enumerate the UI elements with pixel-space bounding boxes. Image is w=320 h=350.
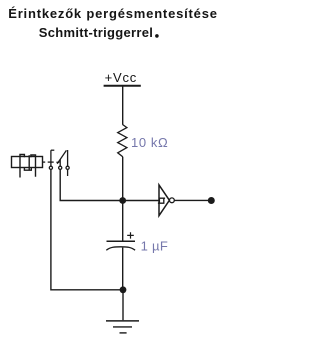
ground bar 1: [106, 320, 139, 322]
title line 1: [0, 6, 232, 21]
output terminal dot: [208, 197, 215, 204]
title line 2: [0, 25, 192, 40]
mechanical link dash 2: [56, 161, 59, 163]
switch S1 body box: [12, 157, 43, 168]
ground bar 2: [113, 326, 132, 328]
wire resistor to node A: [122, 157, 124, 201]
wire Vcc to resistor: [122, 87, 124, 125]
switch S1 divider: [28, 155, 30, 170]
switch S1 pin dash: [42, 161, 45, 163]
capacitor C1 top plate: [107, 240, 136, 242]
contact 1 wire to ground rail: [51, 170, 123, 290]
switch S1 lug 1: [20, 155, 24, 178]
hysteresis symbol: [158, 198, 165, 203]
title end bullet: [155, 34, 159, 38]
svg-text:+Vcc: +Vcc: [105, 70, 137, 85]
contact 1 top tick: [51, 149, 54, 151]
switch S1 bottom tab: [24, 168, 31, 171]
mechanical link dash 1: [48, 161, 54, 163]
capacitor C1 plus sign: [127, 232, 134, 238]
wire inverter output: [174, 199, 208, 201]
inverter bubble: [170, 198, 175, 203]
resistor R1 zigzag: [118, 125, 127, 157]
capacitor C1 bottom plate arc: [106, 247, 135, 250]
contact 2 wire upper: [59, 159, 61, 166]
op-amp U1 Schmitt inverter triangle: [159, 185, 169, 216]
ground bar 3: [120, 332, 127, 334]
node B junction dot: [120, 286, 127, 293]
contact circle 3: [66, 166, 69, 169]
wire node B to ground: [122, 290, 124, 320]
node A junction dot: [119, 197, 126, 204]
wire capacitor to node B: [122, 248, 124, 290]
svg-text:1 µF: 1 µF: [141, 238, 168, 253]
contact 3 wire: [67, 150, 69, 176]
switch blade diagonal: [57, 150, 66, 163]
contact circle 2: [59, 166, 62, 169]
wire node A to capacitor: [122, 201, 124, 241]
switch S1 lug 2: [31, 155, 36, 177]
wire pole to node A: [60, 170, 159, 201]
power rail +Vcc bar: [104, 85, 141, 87]
contact 1 wire upper: [50, 150, 52, 166]
contact circle 1: [49, 166, 52, 169]
svg-text:10 kΩ: 10 kΩ: [131, 135, 168, 150]
